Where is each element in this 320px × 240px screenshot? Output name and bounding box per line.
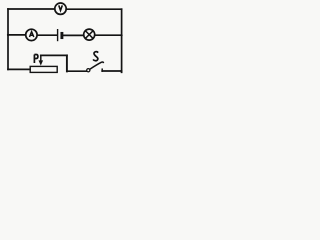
wire: bottom-right corner joining right rail <box>121 71 123 72</box>
junction: middle rail to right rail <box>121 34 123 36</box>
lamp L (circle with X) <box>84 29 95 40</box>
wire: wiper horizontal run <box>41 54 67 56</box>
wire: switch contact to bottom-right corner <box>102 70 121 72</box>
wire: top rail, right segment from voltmeter <box>67 8 122 10</box>
wire: wiper down-lead to bottom rail <box>66 55 68 71</box>
wire: bottom rail left segment into rheostat <box>8 68 30 70</box>
label A inside ammeter <box>30 32 34 37</box>
label S for switch <box>93 52 98 61</box>
rheostat P: wiper stem with arrowhead <box>40 55 42 60</box>
battery cell: long thin positive plate <box>57 30 59 41</box>
wire: lamp to right rail (node at right vertical) <box>95 34 122 36</box>
wire: battery to lamp <box>64 34 84 36</box>
label V inside voltmeter <box>59 5 63 10</box>
wire: middle rail from left rail to ammeter <box>8 34 26 36</box>
rheostat P: resistive track box <box>30 66 57 72</box>
wire: bottom rail from wiper lead to switch hinge <box>67 70 87 72</box>
wire: ammeter to battery <box>38 34 57 36</box>
switch S: fixed contact tick <box>101 69 103 71</box>
wire: left vertical rail <box>7 9 9 69</box>
battery cell: short thick negative plate <box>60 33 63 37</box>
wire: right vertical rail <box>121 9 123 72</box>
rheostat P: wiper arrowhead <box>39 60 44 65</box>
junction: middle rail to left rail <box>7 34 9 36</box>
ammeter A <box>26 29 37 40</box>
lamp filament cross stroke 1 <box>85 31 93 39</box>
voltmeter V <box>55 3 66 14</box>
switch S: hinge pivot circle <box>87 69 90 72</box>
label P for rheostat <box>34 55 38 64</box>
switch S: open blade <box>90 62 103 69</box>
wire: top rail, left segment to voltmeter <box>8 8 55 10</box>
lamp filament cross stroke 2 <box>85 31 93 39</box>
